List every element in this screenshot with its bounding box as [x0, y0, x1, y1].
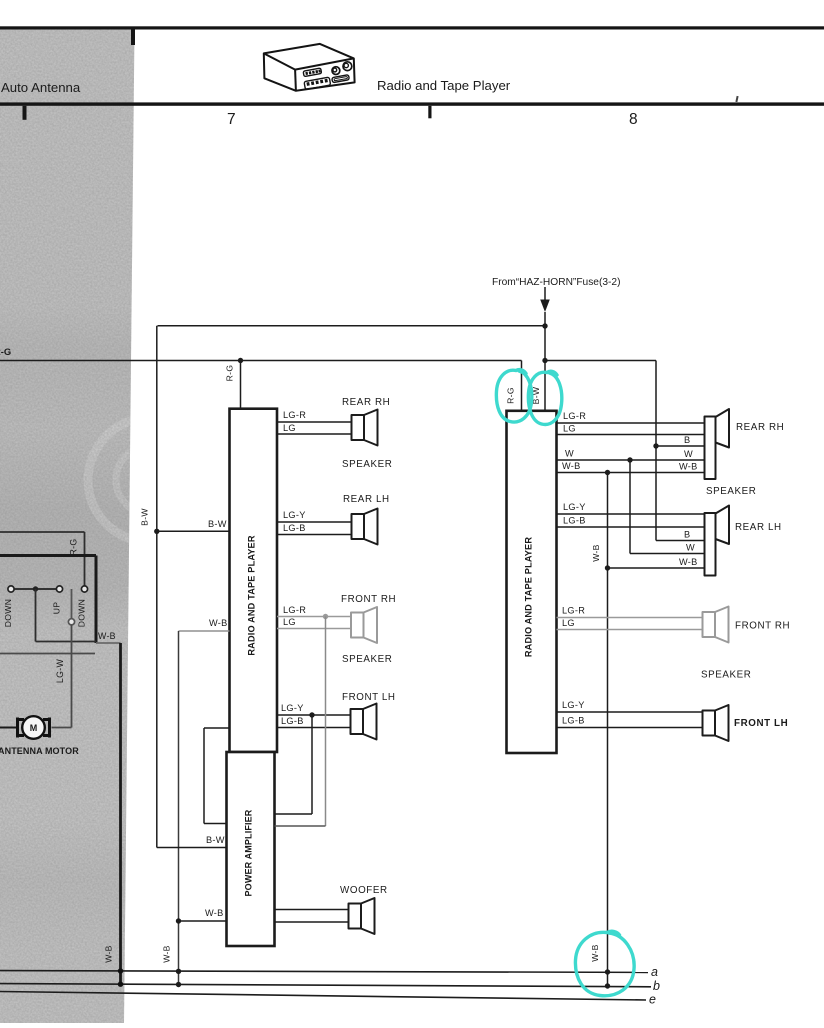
svg-text:SPEAKER: SPEAKER — [701, 670, 751, 681]
svg-text:LG-Y: LG-Y — [563, 502, 586, 512]
wire LG-Y front LH right — [557, 711, 703, 713]
wire woofer lower — [275, 921, 349, 923]
scanned grey paper band — [0, 30, 212, 1024]
svg-text:LG-R: LG-R — [283, 605, 306, 615]
svg-text:8: 8 — [629, 111, 638, 128]
wire LG-B rear LH left — [277, 534, 352, 536]
wire W-B long vertical x607 — [605, 473, 610, 989]
svg-text:B-W: B-W — [208, 519, 227, 529]
radio and tape player (right) box — [507, 411, 557, 753]
svg-text:DOWN: DOWN — [3, 599, 13, 627]
svg-text:R-G: R-G — [0, 346, 11, 357]
svg-text:SPEAKER: SPEAKER — [342, 459, 392, 470]
svg-text:RADIO AND TAPE PLAYER: RADIO AND TAPE PLAYER — [247, 535, 257, 655]
svg-text:W-B: W-B — [679, 557, 698, 567]
wire LG-Y rear LH left — [277, 521, 352, 523]
bus line b — [0, 984, 651, 987]
frame tick at x=133 — [131, 29, 135, 45]
wire W rear RH — [557, 457, 705, 462]
svg-text:W-B: W-B — [591, 544, 601, 561]
svg-text:W-B: W-B — [205, 908, 224, 918]
radio and tape player (left) box — [230, 409, 278, 752]
power amplifier box — [227, 752, 275, 946]
svg-text:W: W — [565, 449, 574, 459]
wire B-W left vertical x157 — [154, 326, 159, 848]
wire LG-R rear RH right — [557, 422, 705, 424]
wire W-B from left radio (faded) — [179, 630, 230, 632]
svg-text:RADIO AND TAPE PLAYER: RADIO AND TAPE PLAYER — [524, 537, 534, 657]
fuse feed arrow — [540, 287, 550, 326]
svg-text:B-W: B-W — [140, 508, 150, 526]
svg-text:SPEAKER: SPEAKER — [706, 486, 756, 497]
wire R-G to switch — [0, 532, 85, 586]
svg-text:e: e — [649, 993, 656, 1007]
svg-text:b: b — [653, 979, 660, 993]
svg-text:LG-B: LG-B — [562, 716, 585, 726]
svg-text:FRONT LH: FRONT LH — [734, 718, 788, 729]
svg-text:W: W — [686, 543, 695, 553]
wire LG-B rear LH right — [557, 526, 705, 528]
svg-text:FRONT RH: FRONT RH — [341, 594, 396, 605]
svg-text:7: 7 — [227, 111, 236, 128]
wire W-B corner to bottom — [96, 643, 123, 987]
svg-text:From“HAZ-HORN”Fuse(3-2): From“HAZ-HORN”Fuse(3-2) — [492, 277, 620, 288]
svg-text:REAR RH: REAR RH — [736, 422, 784, 433]
speaker woofer — [349, 898, 375, 934]
svg-text:Auto Antenna: Auto Antenna — [1, 80, 81, 95]
svg-text:W-B: W-B — [590, 944, 600, 961]
top frame line — [0, 26, 824, 29]
svg-text:M: M — [30, 723, 38, 733]
bus line a — [0, 971, 648, 973]
svg-text:LG-B: LG-B — [281, 716, 304, 726]
svg-text:LG-Y: LG-Y — [283, 510, 306, 520]
svg-text:REAR LH: REAR LH — [343, 494, 390, 505]
highlight circle around W-B bottom — [575, 931, 634, 996]
tick below divider x=430 — [428, 106, 431, 119]
svg-text:LG-Y: LG-Y — [562, 700, 585, 710]
speaker rear LH right (terminal strip) — [705, 506, 730, 576]
stray mark — [735, 96, 738, 102]
speaker rear RH right (terminal strip) — [705, 409, 730, 479]
svg-text:ANTENNA MOTOR: ANTENNA MOTOR — [0, 746, 79, 756]
wire LG-R front RH left (faded) — [277, 614, 351, 619]
speaker rear RH left — [352, 410, 378, 446]
svg-text:R-G: R-G — [225, 365, 235, 382]
speaker rear LH left — [352, 509, 378, 545]
speaker front RH right (faded) — [703, 607, 729, 643]
svg-text:LG-R: LG-R — [283, 410, 306, 420]
svg-text:LG: LG — [562, 618, 575, 628]
svg-text:W-B: W-B — [679, 462, 698, 472]
wire from junction to box bottom — [36, 589, 97, 642]
wire LG rear RH left — [277, 433, 352, 435]
bus line e — [0, 992, 646, 1001]
wire R-G drop to right radio — [521, 361, 523, 412]
speaker front LH right — [703, 705, 729, 741]
svg-text:REAR RH: REAR RH — [342, 397, 390, 408]
svg-text:W-B: W-B — [562, 461, 581, 471]
wire LG front RH right faded — [557, 629, 703, 631]
svg-text:LG: LG — [283, 423, 296, 433]
wire B rear LH — [656, 540, 705, 542]
svg-text:a: a — [651, 965, 658, 979]
wire loop front RH return to amp (faded) — [275, 617, 326, 827]
svg-text:LG-R: LG-R — [563, 411, 586, 421]
wire loop LG-Y to amp (right) — [275, 715, 313, 814]
svg-text:POWER AMPLIFIER: POWER AMPLIFIER — [244, 809, 254, 896]
svg-text:R-G: R-G — [69, 538, 79, 555]
wire B-W into left radio — [157, 530, 230, 532]
highlight circle around R-G — [496, 370, 531, 422]
wire B-W into amplifier — [157, 847, 227, 849]
svg-text:SPEAKER: SPEAKER — [342, 654, 392, 665]
svg-text:REAR LH: REAR LH — [735, 522, 782, 533]
svg-text:W: W — [684, 449, 693, 459]
wire B rear RH — [656, 445, 705, 447]
wire W rear LH — [630, 460, 705, 554]
svg-text:LG: LG — [283, 617, 296, 627]
svg-text:W-B: W-B — [98, 631, 116, 641]
svg-text:W-B: W-B — [162, 945, 172, 962]
wire R-G drop to left radio — [240, 361, 242, 409]
wire LG-Y rear LH right — [557, 513, 705, 515]
wire stub to second row terminal — [68, 589, 74, 625]
wire W-B rear RH — [557, 470, 705, 475]
svg-text:W-B: W-B — [209, 618, 228, 628]
tick below divider x=24 — [23, 106, 27, 120]
svg-text:UP: UP — [52, 602, 62, 615]
wire R-G rail — [0, 358, 522, 363]
wire LG-W motor — [52, 625, 72, 728]
wire motor left lead — [0, 727, 18, 729]
wire LG-R rear RH left — [277, 421, 352, 423]
speaker front RH left (faded) — [351, 607, 377, 643]
wire woofer upper — [275, 909, 349, 911]
wire LG front RH left (faded) — [277, 628, 351, 630]
svg-text:B: B — [684, 530, 690, 540]
wire LG-B front LH left — [277, 727, 351, 729]
highlight circle around B-W — [528, 371, 561, 424]
wire B-W feed vertical into right radio — [542, 323, 547, 410]
wire LG-R front RH right faded — [557, 617, 703, 619]
svg-text:LG-B: LG-B — [283, 523, 306, 533]
svg-text:W-B: W-B — [104, 945, 114, 962]
wire LG-Y front LH left — [277, 712, 351, 717]
wire LG-B front LH right — [557, 727, 703, 729]
svg-text:WOOFER: WOOFER — [340, 885, 388, 896]
svg-text:LG-R: LG-R — [562, 606, 585, 616]
wire lower horizontal in band — [0, 653, 95, 655]
switch terminal row — [8, 586, 88, 592]
svg-text:R-G: R-G — [506, 387, 516, 404]
svg-text:LG-Y: LG-Y — [281, 703, 304, 713]
wire W-B vertical x178 — [176, 631, 181, 987]
wire loop radio to amp (left outside) — [204, 728, 230, 824]
radio and tape player icon — [264, 44, 355, 91]
wire thick switch feed — [0, 556, 96, 644]
svg-text:LG: LG — [563, 424, 576, 434]
svg-text:B: B — [684, 435, 690, 445]
svg-text:LG-W: LG-W — [55, 659, 65, 684]
svg-text:DOWN: DOWN — [77, 599, 87, 627]
wire LG rear RH right — [557, 434, 705, 436]
svg-text:B-W: B-W — [206, 835, 225, 845]
antenna motor M — [18, 716, 50, 739]
svg-text:FRONT LH: FRONT LH — [342, 692, 396, 703]
wire W-B into amplifier — [179, 920, 227, 922]
wire feed branch to left x157 — [158, 325, 546, 327]
wire branch to B terminals — [545, 361, 659, 541]
svg-text:Radio and Tape Player: Radio and Tape Player — [377, 78, 511, 93]
title row divider line — [0, 102, 824, 105]
speaker front LH left — [351, 704, 377, 740]
svg-text:FRONT RH: FRONT RH — [735, 621, 790, 632]
wire W-B rear LH — [605, 565, 705, 570]
svg-text:LG-B: LG-B — [563, 516, 586, 526]
